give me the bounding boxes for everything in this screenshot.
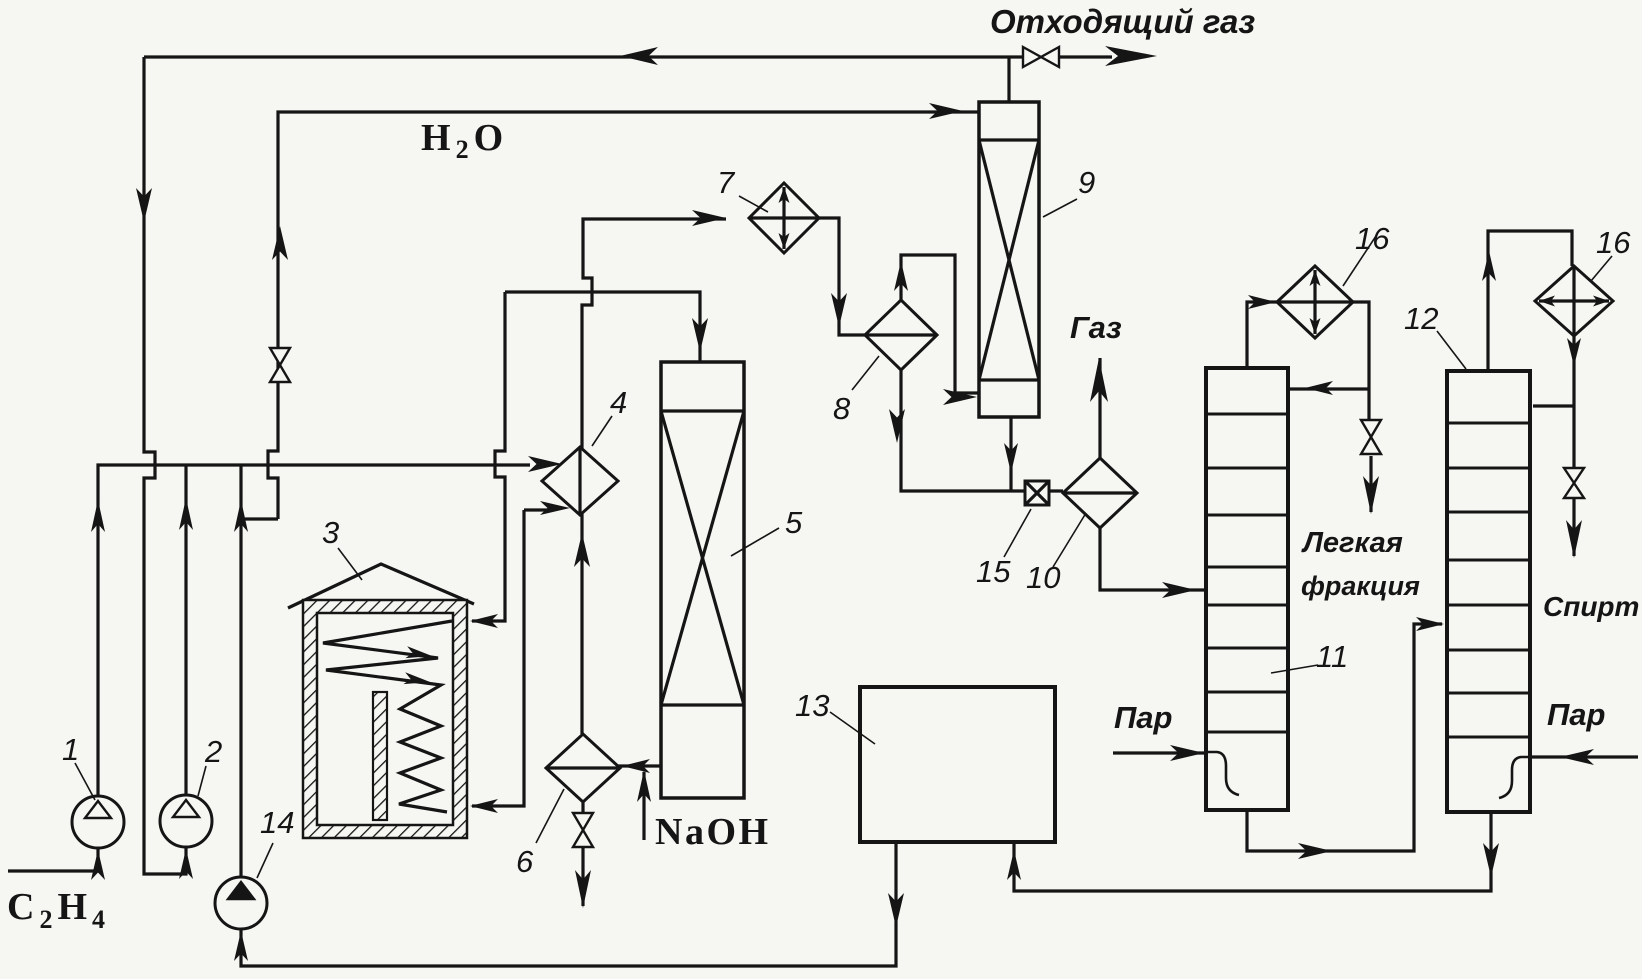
svg-text:Легкая: Легкая [1301, 527, 1403, 559]
svg-text:3: 3 [322, 515, 339, 550]
svg-text:8: 8 [833, 391, 851, 426]
svg-text:NaOH: NaOH [655, 811, 771, 853]
svg-text:11: 11 [1316, 639, 1348, 674]
svg-text:7: 7 [717, 165, 736, 200]
svg-text:13: 13 [795, 688, 829, 723]
svg-text:Спирт: Спирт [1543, 591, 1639, 622]
svg-text:2: 2 [204, 734, 222, 769]
svg-text:фракция: фракция [1301, 571, 1420, 601]
svg-text:10: 10 [1026, 560, 1060, 595]
svg-text:14: 14 [260, 805, 294, 840]
svg-text:Пар: Пар [1114, 700, 1172, 735]
svg-text:6: 6 [516, 844, 534, 879]
svg-text:Отходящий газ: Отходящий газ [990, 3, 1255, 40]
svg-text:Пар: Пар [1547, 697, 1605, 732]
svg-text:16: 16 [1596, 225, 1631, 260]
svg-text:1: 1 [62, 732, 79, 767]
svg-text:15: 15 [976, 554, 1011, 589]
svg-text:Газ: Газ [1070, 310, 1122, 345]
svg-text:5: 5 [785, 505, 803, 540]
svg-text:4: 4 [610, 385, 627, 420]
svg-text:16: 16 [1355, 221, 1390, 256]
svg-text:9: 9 [1078, 165, 1095, 200]
svg-text:12: 12 [1404, 301, 1438, 336]
